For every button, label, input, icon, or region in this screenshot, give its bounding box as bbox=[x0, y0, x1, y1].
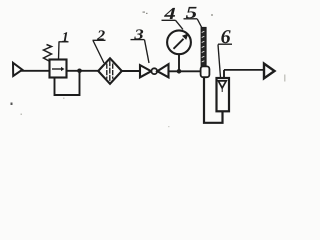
svg-text:6: 6 bbox=[221, 27, 231, 48]
svg-text:1: 1 bbox=[62, 30, 69, 45]
svg-text:5: 5 bbox=[186, 3, 198, 22]
svg-text:4: 4 bbox=[163, 4, 176, 23]
svg-text:2: 2 bbox=[96, 28, 105, 44]
svg-text:3: 3 bbox=[133, 27, 144, 43]
